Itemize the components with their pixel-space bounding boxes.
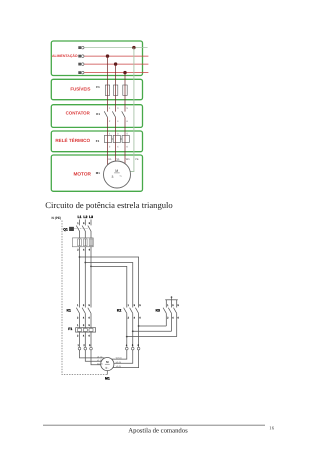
wire L2 vertical [84,220,86,308]
contactor K1 label [67,309,71,313]
contactor K1 pole 1 [104,107,111,123]
contactor K3 pole 1 [163,304,169,326]
contactor K3 pole 3 [174,304,180,337]
contactor K2 pole 1 [124,304,130,348]
svg-text:5: 5 [139,304,141,307]
svg-text:M: M [115,169,118,173]
svg-text:Apostila de comandos: Apostila de comandos [128,428,188,435]
svg-text:U1 (1): U1 (1) [97,355,103,358]
wire branch L3 to K2 pole1 [91,266,127,307]
svg-text:W2 (4): W2 (4) [116,357,122,360]
fuse Q1-3 [89,239,93,246]
contactor K2 pole 3 [135,304,141,348]
svg-text:PE: PE [135,158,139,161]
wire PE vertical (light green) [130,48,134,172]
svg-text:L1: L1 [78,215,82,219]
box ALIMENTAÇÃO [51,41,142,76]
svg-text:FUSÍVEIS: FUSÍVEIS [70,86,90,91]
wire phase 3 vertical [124,73,126,165]
motor terminal labels right [116,357,122,369]
svg-text:3: 3 [134,304,136,307]
svg-text:1: 1 [128,304,130,307]
svg-text:3~: 3~ [105,366,109,370]
svg-text:V1 (2): V1 (2) [97,359,103,362]
svg-text:1: 1 [167,304,169,307]
wire phase 2 vertical [115,64,117,162]
svg-text:5: 5 [89,222,91,225]
wire L1 horizontal (red) [84,55,148,57]
contactor K1 pole 3 [88,304,91,328]
svg-text:V2 (6): V2 (6) [116,365,122,368]
contactor K2 pole 2 [130,304,136,348]
svg-text:2: 2 [77,248,79,251]
node tap L2 to K2 [84,262,86,264]
svg-text:5: 5 [132,344,134,347]
contactor K1 pole 2 [112,107,119,123]
svg-text:~: ~ [119,173,122,178]
svg-text:F1: F1 [96,139,100,143]
svg-text:6: 6 [138,344,140,347]
svg-text:K3: K3 [156,309,160,313]
svg-text:4: 4 [83,248,85,251]
disconnect Q1 pin labels 1 3 5 [77,222,91,225]
svg-text:Circuito de potência estrela t: Circuito de potência estrela triangulo [45,200,172,210]
box MOTOR [51,155,142,191]
wire numbers 1 2 3 [78,344,92,347]
wires terminals to motor right [112,350,139,368]
fuse F1-2 [113,85,117,95]
motor M1 circle [104,161,131,188]
wire branch L1 to K2 pole3 [80,257,139,308]
supply terminal L1 [78,55,84,58]
disconnect Q1 blades [76,226,91,232]
wire PE dashed [62,221,107,375]
svg-text:K1: K1 [67,309,71,313]
svg-text:N (PE): N (PE) [52,216,62,220]
svg-text:6: 6 [139,316,141,319]
thermal relay F1 label [68,327,72,331]
fuse Q1-1 [78,239,82,246]
svg-text:M1: M1 [96,171,100,175]
svg-text:W1 (3): W1 (3) [97,362,103,365]
svg-text:4: 4 [134,316,136,319]
svg-text:3: 3 [112,175,114,179]
svg-text:1: 1 [77,324,79,327]
node L1 tap [106,54,109,57]
supply terminal L3 [78,71,84,74]
svg-text:ALIMENTAÇÃO: ALIMENTAÇÃO [52,53,78,58]
motor M1 circle [101,358,114,371]
LOWER FIGURE [52,215,180,381]
wire L3 horizontal (red) [84,72,148,74]
wires F1 to terminals [80,332,92,347]
svg-text:5: 5 [178,304,180,307]
node tap L3 to K2 [90,266,92,268]
box RELÉ TÉRMICO [51,131,142,152]
motor terminal labels left [97,355,103,365]
svg-text:3: 3 [83,222,85,225]
svg-text:2: 2 [128,316,130,319]
contactor K2 label [117,309,121,313]
svg-text:RELÉ TÉRMICO: RELÉ TÉRMICO [55,137,90,143]
motor terminal labels U1 V1 W1 PE [108,158,139,161]
svg-text:V1: V1 [116,158,120,161]
thermal relay F1 pin labels 2 4 6 [77,335,91,338]
svg-text:2: 2 [167,316,169,319]
terminal circles right [126,347,140,350]
footer rule [43,424,265,426]
svg-text:6: 6 [89,248,91,251]
svg-text:L3: L3 [89,215,93,219]
svg-text:F1: F1 [96,85,100,89]
svg-text:4: 4 [126,344,128,347]
svg-text:2: 2 [77,335,79,338]
contactor K3 pole 2 [168,304,174,332]
svg-text:F1: F1 [68,327,72,331]
thermal relay element 2 [113,133,120,149]
svg-text:4: 4 [172,316,174,319]
svg-text:U1: U1 [108,158,112,161]
supply terminal PE [78,46,84,49]
fuse F1-3 [123,85,127,95]
Q1 label and actuator [63,227,88,231]
wire K3 pole3 to K2 pole1 [126,336,177,338]
svg-text:MOTOR: MOTOR [74,172,92,177]
wire numbers 4 5 6 [126,344,140,347]
svg-text:16: 16 [269,426,274,432]
svg-text:1: 1 [77,304,79,307]
svg-text:1: 1 [77,222,79,225]
thermal relay element 3 [112,133,130,149]
K3 star bridge [165,296,178,307]
contactor K1 pole 3 [122,107,129,123]
svg-text:2: 2 [77,316,79,319]
svg-text:3: 3 [172,304,174,307]
wire L1 vertical [79,220,81,308]
svg-text:U2 (5): U2 (5) [116,361,122,364]
label M1 [105,377,110,381]
wire L3 vertical [90,220,92,308]
svg-text:5: 5 [89,304,91,307]
node L2 tap [114,62,117,65]
thermal relay element 1 [104,133,111,149]
node L3 tap [123,71,126,74]
wire K3 pole1 to K2 pole3 [138,325,167,327]
thermal relay F1 pin labels 1 3 5 [77,324,91,327]
svg-text:K1: K1 [96,112,100,116]
svg-text:3: 3 [83,304,85,307]
svg-text:6: 6 [89,335,91,338]
contactor K1 pole 2 [82,304,85,328]
svg-text:6: 6 [89,316,91,319]
node PE tap [132,46,135,49]
supply terminal L2 [78,63,84,66]
wires terminals to motor left [80,350,105,365]
thermal relay F1 box [76,328,96,332]
wire K3 pole2 to K2 pole2 [132,330,172,332]
wire L2 horizontal (red) [84,63,148,65]
svg-text:Q1: Q1 [63,228,68,232]
svg-text:5: 5 [89,324,91,327]
box FUSÍVEIS [51,79,142,99]
svg-text:M1: M1 [105,377,110,381]
svg-text:6: 6 [178,316,180,319]
wire L-PE horizontal (top, light green) [84,47,147,49]
wire phase 1 vertical [107,56,109,165]
fuse block outer box [72,238,93,247]
svg-text:K2: K2 [117,309,121,313]
motor PE stub [106,371,108,375]
label L1 L2 L3 [78,215,94,219]
fuse pin labels 2 4 6 [77,248,91,251]
svg-text:W1: W1 [126,158,130,161]
label N (PE) [52,216,62,220]
svg-text:L2: L2 [83,215,87,219]
svg-text:4: 4 [83,335,85,338]
terminal circles left [78,347,92,350]
svg-text:CONTATOR: CONTATOR [66,111,91,116]
page texts [43,200,275,434]
node tap L1 to K2 [79,256,81,258]
box CONTATOR [51,105,142,128]
svg-text:3: 3 [83,324,85,327]
contactor K3 label [156,309,160,313]
contactor K1 pole 1 [76,304,79,328]
fuse Q1-2 [84,239,88,246]
wire branch L2 to K2 pole2 [85,263,132,308]
fuse F1-1 [105,85,109,95]
svg-text:4: 4 [83,316,85,319]
